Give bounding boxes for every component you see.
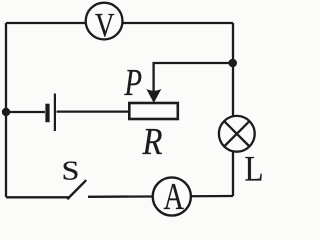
svg-text:A: A: [164, 176, 185, 218]
wire battery to resistor: [57, 110, 130, 112]
voltmeter U circle: [86, 3, 123, 40]
ammeter circle: [153, 177, 191, 215]
svg-text:V: V: [95, 7, 115, 44]
lamp cross stroke 2: [224, 121, 249, 146]
svg-text:S: S: [62, 156, 80, 186]
wire left rail to battery: [6, 111, 45, 113]
wire left rail: [5, 23, 7, 197]
battery short thick plate: [45, 104, 49, 123]
node (right junction dot): [228, 59, 237, 68]
node (left junction dot): [2, 108, 10, 116]
wire bottom rail (right part, lamp to ammeter): [88, 195, 233, 198]
svg-text:R: R: [142, 121, 163, 163]
lamp cross stroke 1: [224, 121, 249, 146]
wire wiper branch: [154, 63, 233, 93]
wire top rail: [6, 22, 233, 24]
svg-text:P: P: [124, 62, 142, 104]
resistor R box: [129, 103, 178, 119]
lamp L circle: [219, 116, 255, 152]
wire bottom rail (left part, switch to corner): [6, 196, 69, 198]
wire right rail: [232, 23, 234, 196]
battery long thin plate: [54, 94, 56, 132]
switch S lever: [68, 181, 86, 199]
svg-text:L: L: [245, 149, 264, 189]
potentiometer wiper arrow: [146, 89, 161, 103]
